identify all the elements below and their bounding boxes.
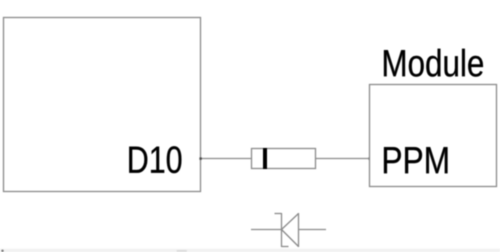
label PPM	[384, 147, 447, 173]
block PPM Module	[370, 85, 497, 187]
junction pin dot at D10 block	[199, 157, 201, 159]
wire (cathode right lead)	[299, 229, 327, 231]
zener cathode bar bottom hook	[282, 246, 289, 248]
zener triangle right edge	[298, 213, 300, 247]
zener triangle upper edge	[282, 214, 299, 230]
zener diode symbol	[251, 213, 326, 247]
junction pin dot at PPM block	[368, 157, 370, 159]
cut-off mark middle	[177, 250, 188, 252]
label Module	[384, 49, 483, 77]
zener cathode bar	[281, 213, 283, 247]
diode cathode band	[263, 148, 267, 169]
zener triangle lower edge	[282, 230, 299, 247]
diode D (package body)	[252, 149, 316, 169]
wire	[316, 158, 370, 160]
wire (anode left lead)	[251, 229, 282, 231]
wire	[201, 158, 252, 160]
bottom partial row band	[0, 249, 500, 252]
zener cathode bar top hook	[275, 213, 282, 215]
block D10 (sheet symbol)	[4, 18, 201, 192]
cut-off mark left	[1, 250, 3, 252]
label D10	[129, 146, 181, 173]
